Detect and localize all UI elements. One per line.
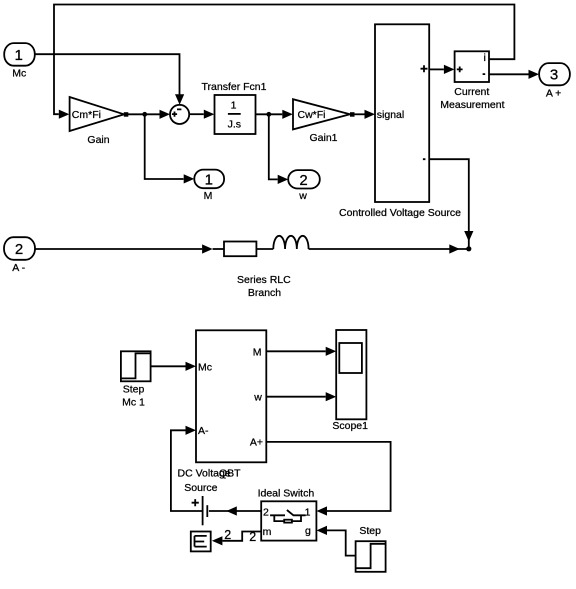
gain1 output port square bbox=[350, 112, 355, 117]
svg-text:Measurement: Measurement bbox=[440, 99, 504, 111]
svg-text:signal: signal bbox=[377, 109, 404, 121]
svg-text:1: 1 bbox=[305, 506, 311, 518]
svg-text:M: M bbox=[204, 190, 213, 202]
svg-text:Step: Step bbox=[123, 384, 145, 396]
svg-text:Ideal Switch: Ideal Switch bbox=[258, 487, 315, 499]
svg-text:DC Voltage: DC Voltage bbox=[178, 468, 231, 480]
svg-text:A -: A - bbox=[12, 262, 25, 274]
wire gain output to sum bbox=[128, 110, 170, 119]
outport 3 (A +) bbox=[539, 63, 570, 85]
svg-text:Source: Source bbox=[184, 482, 217, 494]
label Step Mc 1 bbox=[122, 384, 145, 409]
svg-text:Transfer Fcn1: Transfer Fcn1 bbox=[202, 81, 267, 93]
terminator block (machine measurement) bbox=[191, 532, 211, 552]
wire subsystem w to scope bbox=[266, 392, 336, 401]
outport 2 (w) bbox=[288, 170, 320, 189]
svg-text:Mc: Mc bbox=[198, 361, 212, 373]
svg-text:2: 2 bbox=[249, 530, 256, 544]
svg-text:Cm*Fi: Cm*Fi bbox=[72, 109, 101, 121]
svg-text:1: 1 bbox=[231, 100, 237, 112]
node A junction dot bbox=[466, 246, 471, 251]
gain Cm*Fi (Gain) bbox=[70, 97, 124, 131]
outport 1 (M) bbox=[194, 170, 224, 189]
label DC Voltage Source bbox=[178, 468, 231, 495]
svg-text:Cw*Fi: Cw*Fi bbox=[298, 109, 326, 121]
wire subsystem A+ to ideal switch port 1 bbox=[266, 442, 390, 516]
wire Mc to sum (down into minus input) bbox=[35, 54, 184, 105]
inport 2 (A -) bbox=[4, 237, 35, 260]
svg-text:1: 1 bbox=[205, 171, 213, 188]
wire ideal switch m to measurement terminator bbox=[212, 532, 261, 546]
wire subsystem M to scope bbox=[266, 347, 336, 356]
svg-text:i: i bbox=[484, 52, 486, 64]
gain Cw*Fi (Gain1) bbox=[293, 99, 350, 129]
wire transfer fcn to gain1 bbox=[256, 110, 293, 119]
wire CVS + to current measurement bbox=[429, 65, 454, 74]
label Current Measurement bbox=[440, 86, 504, 111]
current measurement U3 bbox=[455, 51, 489, 82]
svg-text:A-: A- bbox=[198, 425, 209, 437]
svg-text:2: 2 bbox=[299, 172, 307, 189]
scope (Scope1) bbox=[336, 330, 366, 419]
svg-text:A+: A+ bbox=[250, 437, 263, 449]
wire current measurement to outport 3 bbox=[489, 70, 539, 79]
svg-text:J.s: J.s bbox=[228, 118, 241, 130]
DC voltage source B1 (battery) bbox=[192, 496, 208, 525]
wire inport 2 to series RLC branch bbox=[35, 244, 213, 253]
svg-text:Step: Step bbox=[359, 525, 381, 537]
wire step to subsystem Mc input bbox=[151, 362, 196, 371]
svg-text:3: 3 bbox=[550, 67, 558, 84]
wire feedback: current measurement i output to gain input bbox=[54, 5, 514, 119]
inport 1 (Mc) bbox=[4, 43, 35, 66]
wire CVS - down to node bbox=[429, 159, 473, 246]
sum block (summing junction) bbox=[170, 105, 189, 124]
label Series RLC Branch bbox=[237, 274, 291, 299]
node junction at transfer fcn output bbox=[266, 112, 271, 117]
transfer function U1 (Transfer Fcn1) bbox=[215, 95, 256, 134]
ideal switch SW1 bbox=[261, 501, 316, 540]
subsystem QBT bbox=[196, 330, 266, 462]
svg-text:Controlled Voltage Source: Controlled Voltage Source bbox=[339, 207, 461, 219]
wire sum to transfer fcn bbox=[189, 110, 214, 119]
ideal switch snubber resistor bbox=[274, 515, 301, 522]
wire step to ideal switch g input bbox=[317, 526, 356, 556]
svg-text:Branch: Branch bbox=[248, 287, 281, 299]
svg-text:M: M bbox=[253, 346, 262, 358]
svg-text:Mc 1: Mc 1 bbox=[122, 397, 145, 409]
svg-text:Current: Current bbox=[454, 86, 489, 98]
svg-text:Gain: Gain bbox=[87, 134, 109, 146]
wire ideal switch port 2 to battery bbox=[209, 506, 261, 515]
svg-text:Series RLC: Series RLC bbox=[237, 274, 291, 286]
ideal switch contact symbol bbox=[270, 510, 305, 515]
step source (Step Mc 1) bbox=[121, 351, 151, 381]
svg-text:2: 2 bbox=[15, 241, 23, 258]
svg-text:Gain1: Gain1 bbox=[309, 132, 337, 144]
svg-text:Mc: Mc bbox=[12, 68, 26, 80]
svg-text:2: 2 bbox=[263, 506, 269, 518]
svg-text:w: w bbox=[298, 190, 307, 202]
svg-text:m: m bbox=[263, 526, 272, 538]
wire gain1 to controlled voltage source signal input bbox=[355, 110, 376, 119]
svg-text:g: g bbox=[305, 525, 311, 537]
wire branch to outport M bbox=[145, 114, 195, 183]
series RLC branch (inductor) bbox=[256, 236, 468, 249]
wire battery to subsystem A- input bbox=[171, 426, 202, 511]
controlled voltage source U2 bbox=[375, 24, 429, 202]
svg-text:1: 1 bbox=[15, 47, 23, 64]
svg-text:Scope1: Scope1 bbox=[332, 420, 368, 432]
node junction at gain output branch bbox=[142, 112, 147, 117]
wire arrow into node A bbox=[449, 244, 460, 253]
svg-text:w: w bbox=[253, 391, 262, 403]
svg-text:A +: A + bbox=[546, 88, 561, 100]
step source (Step) bbox=[356, 541, 386, 572]
series RLC branch (resistor) bbox=[213, 242, 257, 257]
wire branch to outport w bbox=[269, 114, 288, 184]
svg-text:2: 2 bbox=[224, 528, 231, 542]
gain output port square bbox=[124, 112, 129, 117]
